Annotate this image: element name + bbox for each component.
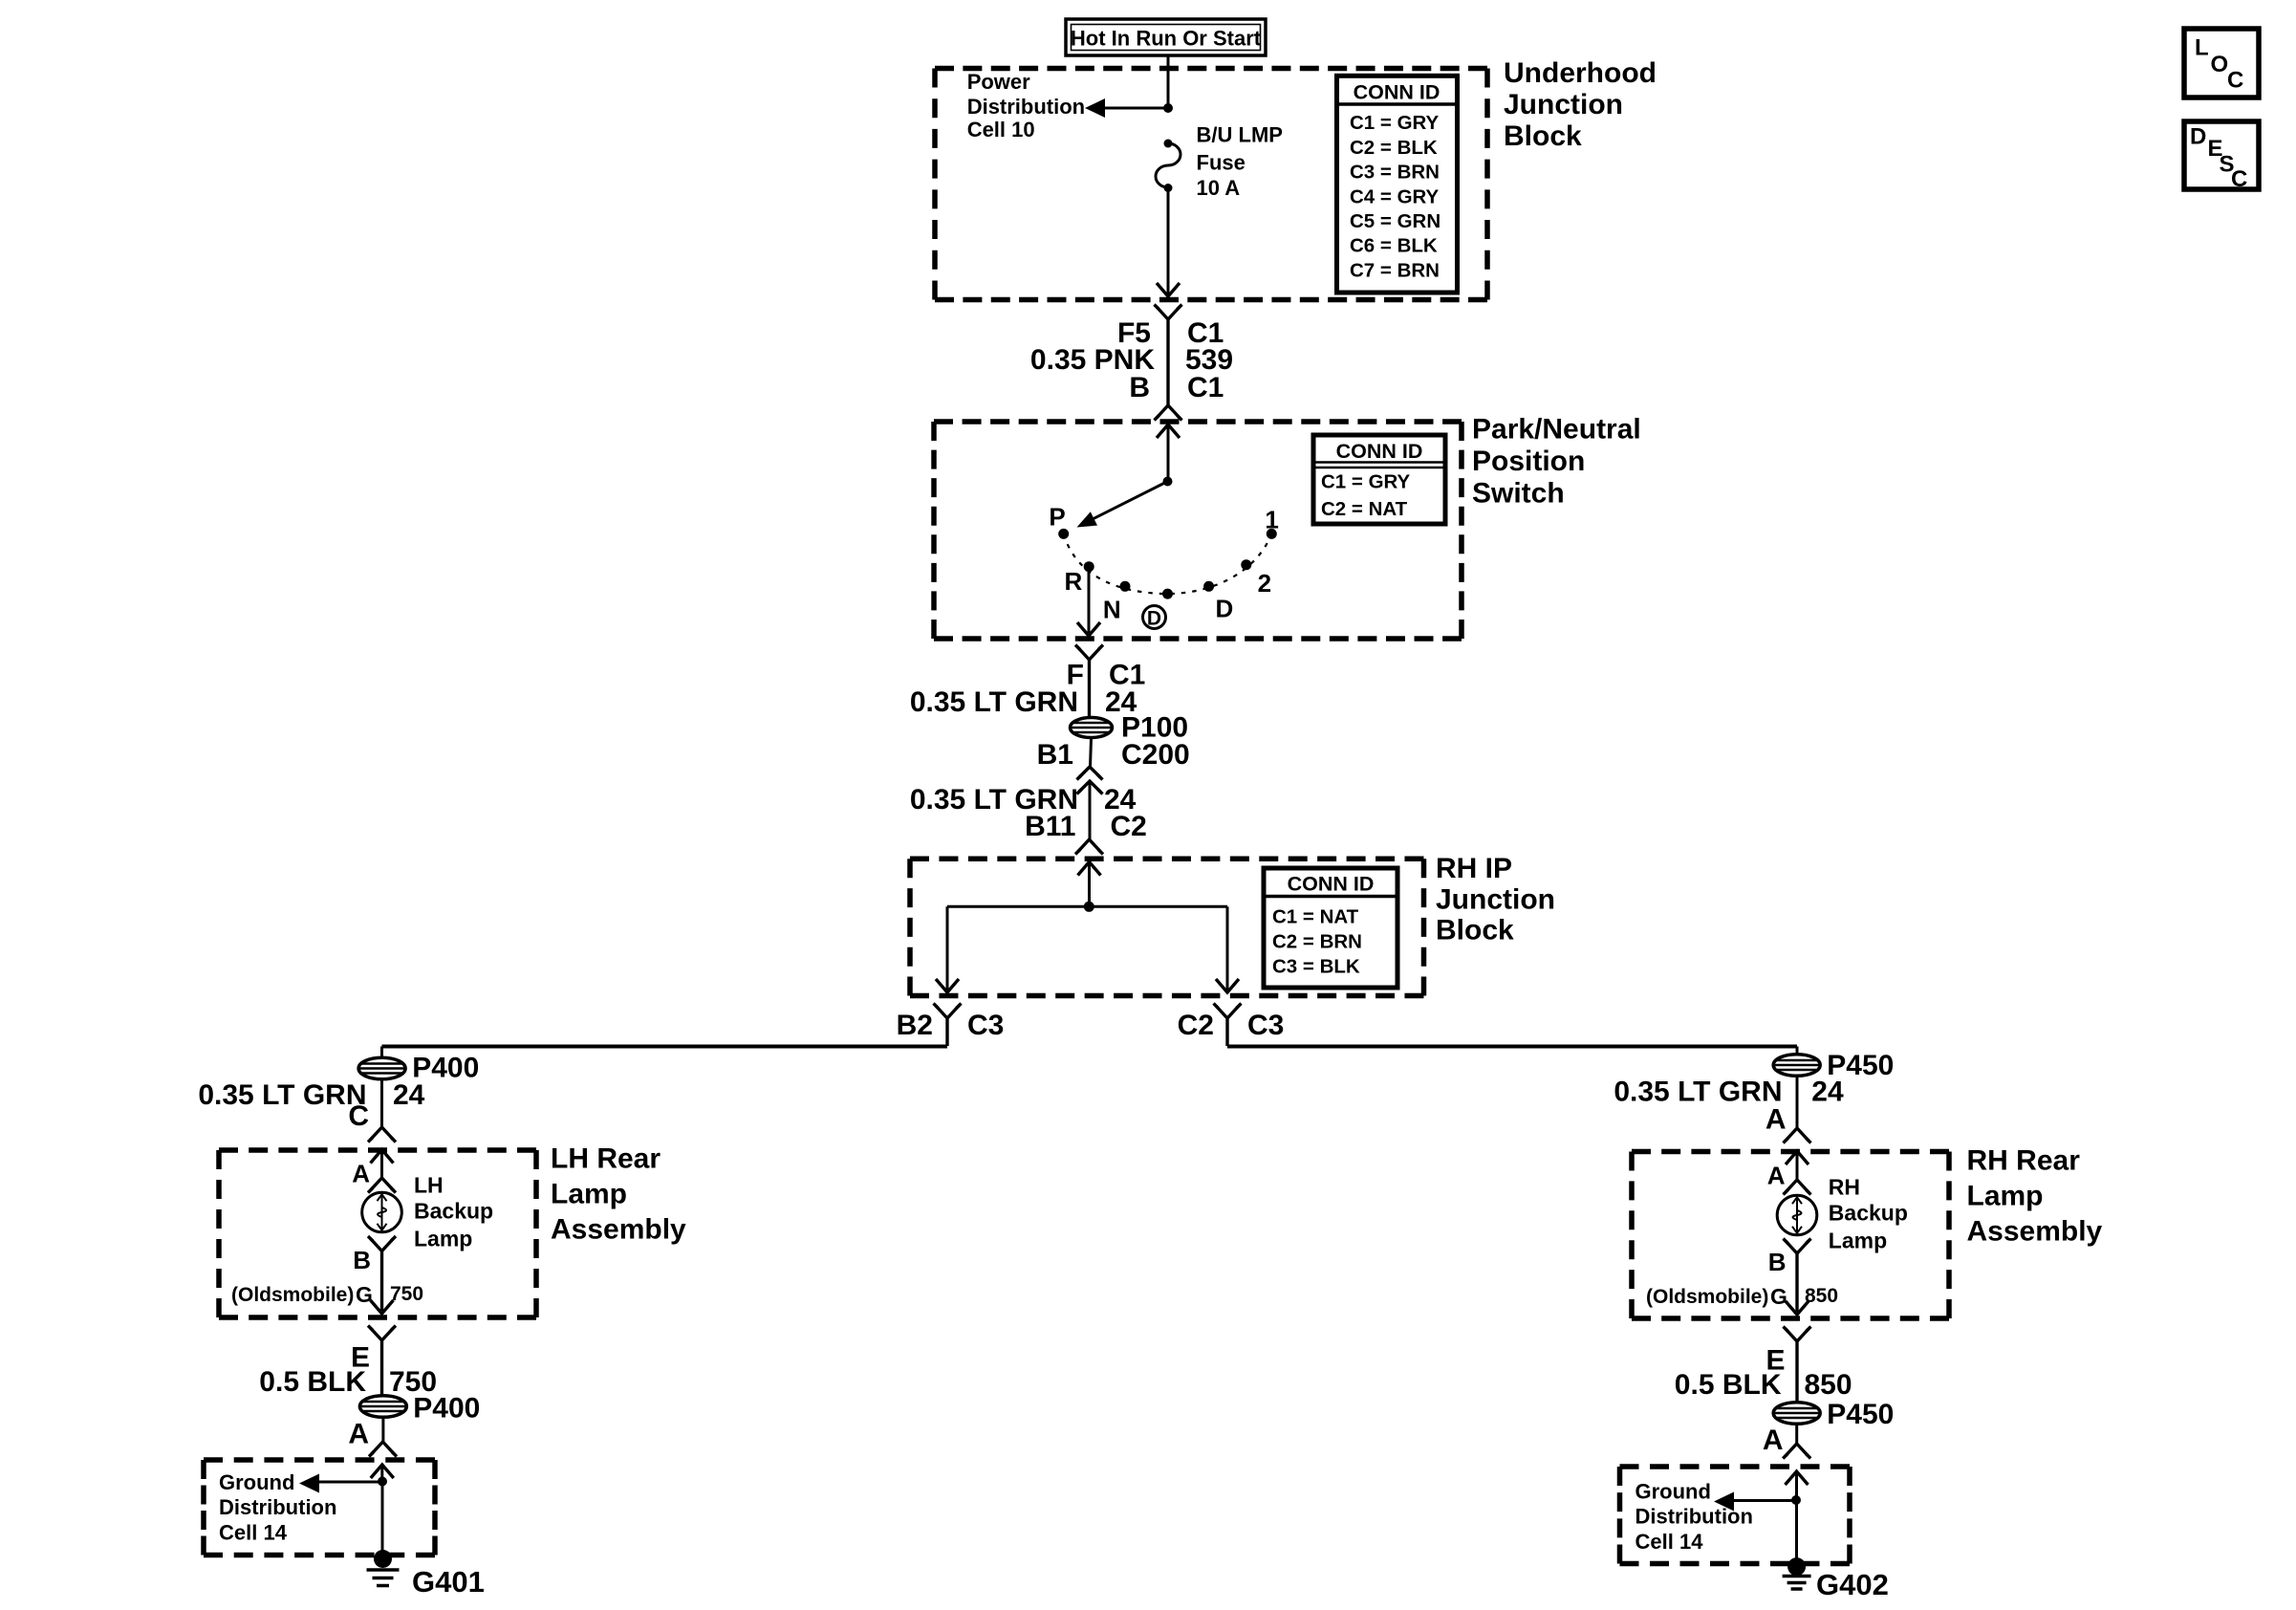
wire to LH lamp connector: [380, 1078, 383, 1129]
svg-text:0.35 LT GRN: 0.35 LT GRN: [198, 1079, 366, 1111]
svg-text:C2 = BLK: C2 = BLK: [1350, 137, 1438, 159]
Ground Distribution Cell 14 dashed enclosure (RH): [1620, 1464, 1851, 1469]
fuse B/U LMP 10 A: [1164, 140, 1173, 148]
run wire to LH rear: [382, 1045, 948, 1049]
LH Rear Lamp Assembly dashed enclosure: [219, 1147, 536, 1153]
wire/arrow to Power Distribution Cell 10: [1103, 107, 1168, 110]
svg-text:C2 = BRN: C2 = BRN: [1272, 931, 1362, 953]
svg-text:C200: C200: [1121, 739, 1190, 771]
svg-text:Lamp: Lamp: [1829, 1229, 1887, 1253]
svg-text:Block: Block: [1504, 120, 1582, 152]
run wire to RH rear: [1227, 1045, 1797, 1049]
connector fork into RH IP Junction Block: [1078, 839, 1101, 852]
R output wire with exit arrow: [1088, 567, 1091, 633]
LH backup lamp bulb: [362, 1192, 402, 1232]
svg-text:D: D: [2190, 124, 2206, 150]
svg-text:Backup: Backup: [1829, 1201, 1908, 1226]
svg-text:C3: C3: [1247, 1010, 1284, 1041]
entry arrow: [371, 1465, 394, 1478]
svg-text:C2 = NAT: C2 = NAT: [1321, 498, 1408, 520]
svg-text:Junction: Junction: [1504, 89, 1623, 120]
svg-text:Lamp: Lamp: [1967, 1181, 2044, 1212]
terminal fork below lamp, pin B: [371, 1239, 394, 1251]
connector fork C2/C3: [1216, 1006, 1239, 1018]
svg-text:850: 850: [1805, 1369, 1852, 1401]
power feed box "Hot In Run Or Start": [1066, 19, 1266, 55]
wire down to connector C1, with exit arrow: [1167, 188, 1170, 296]
svg-text:(Oldsmobile): (Oldsmobile): [231, 1284, 354, 1306]
splice/pass-through P100: [1071, 718, 1113, 738]
svg-text:C: C: [2227, 68, 2243, 94]
node: wiper pivot: [1163, 477, 1173, 487]
left branch wire B2 with exit arrow: [946, 906, 949, 990]
right branch wire C2 with exit arrow: [1226, 906, 1229, 990]
svg-text:G401: G401: [412, 1565, 485, 1599]
ground wire: [381, 1482, 384, 1553]
svg-text:Lamp: Lamp: [551, 1179, 627, 1210]
svg-text:C7 = BRN: C7 = BRN: [1350, 259, 1440, 281]
svg-text:Cell 14: Cell 14: [1635, 1530, 1704, 1554]
svg-text:G: G: [1770, 1284, 1787, 1309]
svg-text:0.35 LT GRN: 0.35 LT GRN: [910, 686, 1078, 718]
svg-text:C5 = GRN: C5 = GRN: [1350, 210, 1440, 232]
svg-text:P: P: [1049, 503, 1065, 532]
svg-text:Park/Neutral: Park/Neutral: [1472, 414, 1641, 446]
terminal fork above lamp: [371, 1178, 394, 1190]
svg-text:B1: B1: [1037, 739, 1073, 771]
svg-text:2: 2: [1258, 569, 1271, 598]
svg-text:Assembly: Assembly: [551, 1214, 686, 1246]
RH Rear Lamp Assembly dashed enclosure: [1632, 1149, 1949, 1155]
switch wiper arrow toward P contact: [1091, 482, 1168, 521]
entry arrow (RH): [1786, 1471, 1809, 1485]
svg-text:C1 = NAT: C1 = NAT: [1272, 906, 1359, 928]
splice P450 (lower): [1773, 1403, 1820, 1425]
svg-text:C3 = BRN: C3 = BRN: [1350, 162, 1440, 184]
connector fork F/C1 below switch: [1078, 647, 1101, 660]
svg-text:CONN ID: CONN ID: [1288, 873, 1375, 896]
connector fork pin E: [371, 1328, 394, 1340]
svg-text:N: N: [1103, 596, 1121, 624]
svg-text:C1: C1: [1187, 372, 1224, 403]
connector fork B2/C3: [936, 1006, 959, 1018]
node: ground tie: [378, 1477, 387, 1487]
svg-text:C: C: [348, 1100, 369, 1132]
splice P450: [1773, 1055, 1820, 1077]
svg-text:Fuse: Fuse: [1197, 151, 1245, 175]
RH IP Junction Block dashed enclosure: [910, 857, 1424, 862]
svg-text:G402: G402: [1816, 1568, 1889, 1601]
splice P400: [358, 1057, 405, 1079]
ground G401: [374, 1550, 392, 1568]
entry arrow and feed wire: [1157, 424, 1180, 438]
connector fork F5/C1 (below Underhood block): [1157, 307, 1180, 319]
contact N: [1120, 581, 1131, 592]
svg-text:Lamp: Lamp: [414, 1227, 472, 1251]
svg-text:B: B: [1768, 1248, 1787, 1276]
svg-text:C1 = GRY: C1 = GRY: [1321, 471, 1411, 493]
svg-text:RH IP: RH IP: [1436, 853, 1512, 884]
svg-text:0.35 LT GRN: 0.35 LT GRN: [1614, 1077, 1782, 1108]
svg-text:Junction: Junction: [1436, 883, 1555, 915]
svg-text:C2: C2: [1178, 1010, 1214, 1041]
exit arrow pin B wire: [371, 1300, 394, 1314]
svg-text:P450: P450: [1827, 1399, 1894, 1430]
in-line connector C200 (double chevron): [1079, 767, 1100, 777]
contact R: [1084, 561, 1094, 572]
svg-text:C: C: [2231, 166, 2247, 192]
connector fork at LH lamp pin A: [371, 1127, 394, 1140]
svg-text:Hot In Run Or Start: Hot In Run Or Start: [1071, 26, 1262, 50]
entry arrow pin A (RH): [1786, 1151, 1809, 1164]
svg-text:Cell 14: Cell 14: [219, 1520, 288, 1544]
svg-text:Assembly: Assembly: [1967, 1216, 2103, 1248]
wire to RH lamp connector: [1796, 1076, 1799, 1130]
contact 2: [1241, 559, 1251, 570]
dashed contact arc: [1064, 533, 1272, 594]
svg-text:850: 850: [1805, 1285, 1838, 1307]
connector fork at RH lamp pin A: [1786, 1128, 1809, 1141]
contact P: [1058, 529, 1069, 539]
DESC reference box: [2184, 121, 2259, 189]
svg-text:LH: LH: [414, 1173, 444, 1198]
LH drop wire: [380, 1047, 383, 1059]
svg-text:P400: P400: [413, 1392, 480, 1424]
svg-text:Underhood: Underhood: [1504, 57, 1657, 89]
node: ground tie (RH): [1791, 1495, 1801, 1505]
svg-text:Distribution: Distribution: [967, 95, 1085, 119]
svg-text:C6 = BLK: C6 = BLK: [1350, 235, 1438, 257]
svg-text:B11: B11: [1025, 811, 1075, 842]
arrow to Ground Distribution (RH): [1734, 1499, 1796, 1502]
svg-text:C1 = GRY: C1 = GRY: [1350, 112, 1440, 134]
connector fork to ground distribution (RH): [1786, 1444, 1809, 1456]
svg-text:24: 24: [1811, 1077, 1844, 1108]
svg-text:CONN ID: CONN ID: [1354, 80, 1440, 103]
internal bus wire: [947, 905, 1227, 908]
ground wire (RH): [1795, 1500, 1798, 1560]
Ground Distribution Cell 14 dashed enclosure (LH): [204, 1457, 435, 1463]
connector fork to ground distribution: [372, 1442, 395, 1454]
svg-text:R: R: [1065, 567, 1083, 596]
arrow to Ground Distribution: [319, 1481, 382, 1484]
node: internal tie point: [1084, 902, 1094, 912]
contact D: [1203, 581, 1214, 592]
svg-text:C4 = GRY: C4 = GRY: [1350, 185, 1440, 207]
contact (center): [1162, 589, 1173, 599]
Underhood Junction Block dashed enclosure: [935, 66, 1487, 72]
svg-text:Block: Block: [1436, 915, 1514, 946]
svg-text:G: G: [356, 1282, 373, 1307]
CONN ID table (RH IP Junction Block): [1264, 868, 1397, 988]
svg-text:L: L: [2195, 35, 2209, 61]
svg-text:A: A: [1765, 1104, 1787, 1136]
svg-text:A: A: [1767, 1162, 1786, 1190]
svg-text:A: A: [348, 1419, 369, 1450]
svg-text:Switch: Switch: [1472, 478, 1565, 510]
svg-text:B: B: [1129, 372, 1150, 403]
connector fork into Park/Neutral switch: [1157, 405, 1180, 418]
ground G402: [1787, 1557, 1806, 1576]
svg-text:750: 750: [390, 1283, 423, 1305]
svg-text:(Oldsmobile): (Oldsmobile): [1646, 1286, 1768, 1308]
circled D (drive): [1143, 606, 1166, 629]
svg-text:1: 1: [1265, 506, 1278, 534]
RH drop wire: [1796, 1047, 1799, 1056]
CONN ID table (Park/Neutral Position Switch): [1313, 435, 1445, 524]
svg-text:Ground: Ground: [1635, 1479, 1711, 1503]
svg-text:D: D: [1147, 608, 1161, 630]
wire to ground connector (RH): [1795, 1424, 1798, 1446]
svg-text:Backup: Backup: [414, 1199, 493, 1224]
entry arrow: [1078, 862, 1101, 876]
RH backup lamp bulb: [1777, 1195, 1817, 1235]
svg-text:A: A: [1763, 1425, 1784, 1456]
contact 1: [1267, 529, 1277, 539]
svg-text:Ground: Ground: [219, 1470, 294, 1494]
svg-text:Distribution: Distribution: [1635, 1505, 1753, 1529]
svg-text:O: O: [2211, 52, 2229, 77]
svg-text:Power: Power: [967, 70, 1030, 94]
wire from Hot In Run Or Start into Underhood Junction Block: [1167, 55, 1170, 108]
svg-text:LH Rear: LH Rear: [551, 1143, 661, 1175]
entry arrow pin A: [371, 1150, 394, 1164]
svg-text:0.5 BLK: 0.5 BLK: [259, 1366, 366, 1398]
splice P400 (lower): [359, 1396, 406, 1418]
Park/Neutral Position Switch dashed enclosure: [934, 419, 1462, 424]
svg-text:C2: C2: [1111, 811, 1147, 842]
connector fork pin E (RH): [1786, 1329, 1809, 1341]
svg-text:D: D: [1216, 595, 1234, 623]
svg-text:Distribution: Distribution: [219, 1495, 336, 1519]
svg-text:C3: C3: [967, 1010, 1004, 1041]
svg-text:B: B: [353, 1246, 371, 1274]
svg-text:Position: Position: [1472, 446, 1585, 477]
svg-text:RH: RH: [1829, 1175, 1860, 1200]
svg-text:24: 24: [393, 1079, 425, 1111]
svg-text:CONN ID: CONN ID: [1336, 440, 1423, 463]
wire from P100 to C200: [1091, 738, 1092, 767]
svg-text:RH Rear: RH Rear: [1967, 1145, 2081, 1177]
LOC reference box: [2184, 29, 2259, 98]
exit arrow pin B wire (RH): [1786, 1301, 1809, 1315]
svg-text:0.5 BLK: 0.5 BLK: [1675, 1369, 1782, 1401]
terminal fork below RH lamp, pin B: [1786, 1241, 1809, 1253]
terminal fork above RH lamp: [1786, 1180, 1809, 1192]
svg-text:A: A: [352, 1160, 370, 1188]
svg-text:Cell 10: Cell 10: [967, 118, 1035, 141]
node: splice to Power Distribution: [1163, 103, 1173, 113]
CONN ID table (Underhood Junction Block): [1337, 76, 1458, 293]
svg-text:10 A: 10 A: [1197, 176, 1241, 200]
svg-text:C3 = BLK: C3 = BLK: [1272, 955, 1360, 977]
svg-text:B2: B2: [897, 1010, 933, 1041]
wire to ground connector: [381, 1417, 384, 1444]
svg-text:B/U LMP: B/U LMP: [1197, 123, 1283, 147]
